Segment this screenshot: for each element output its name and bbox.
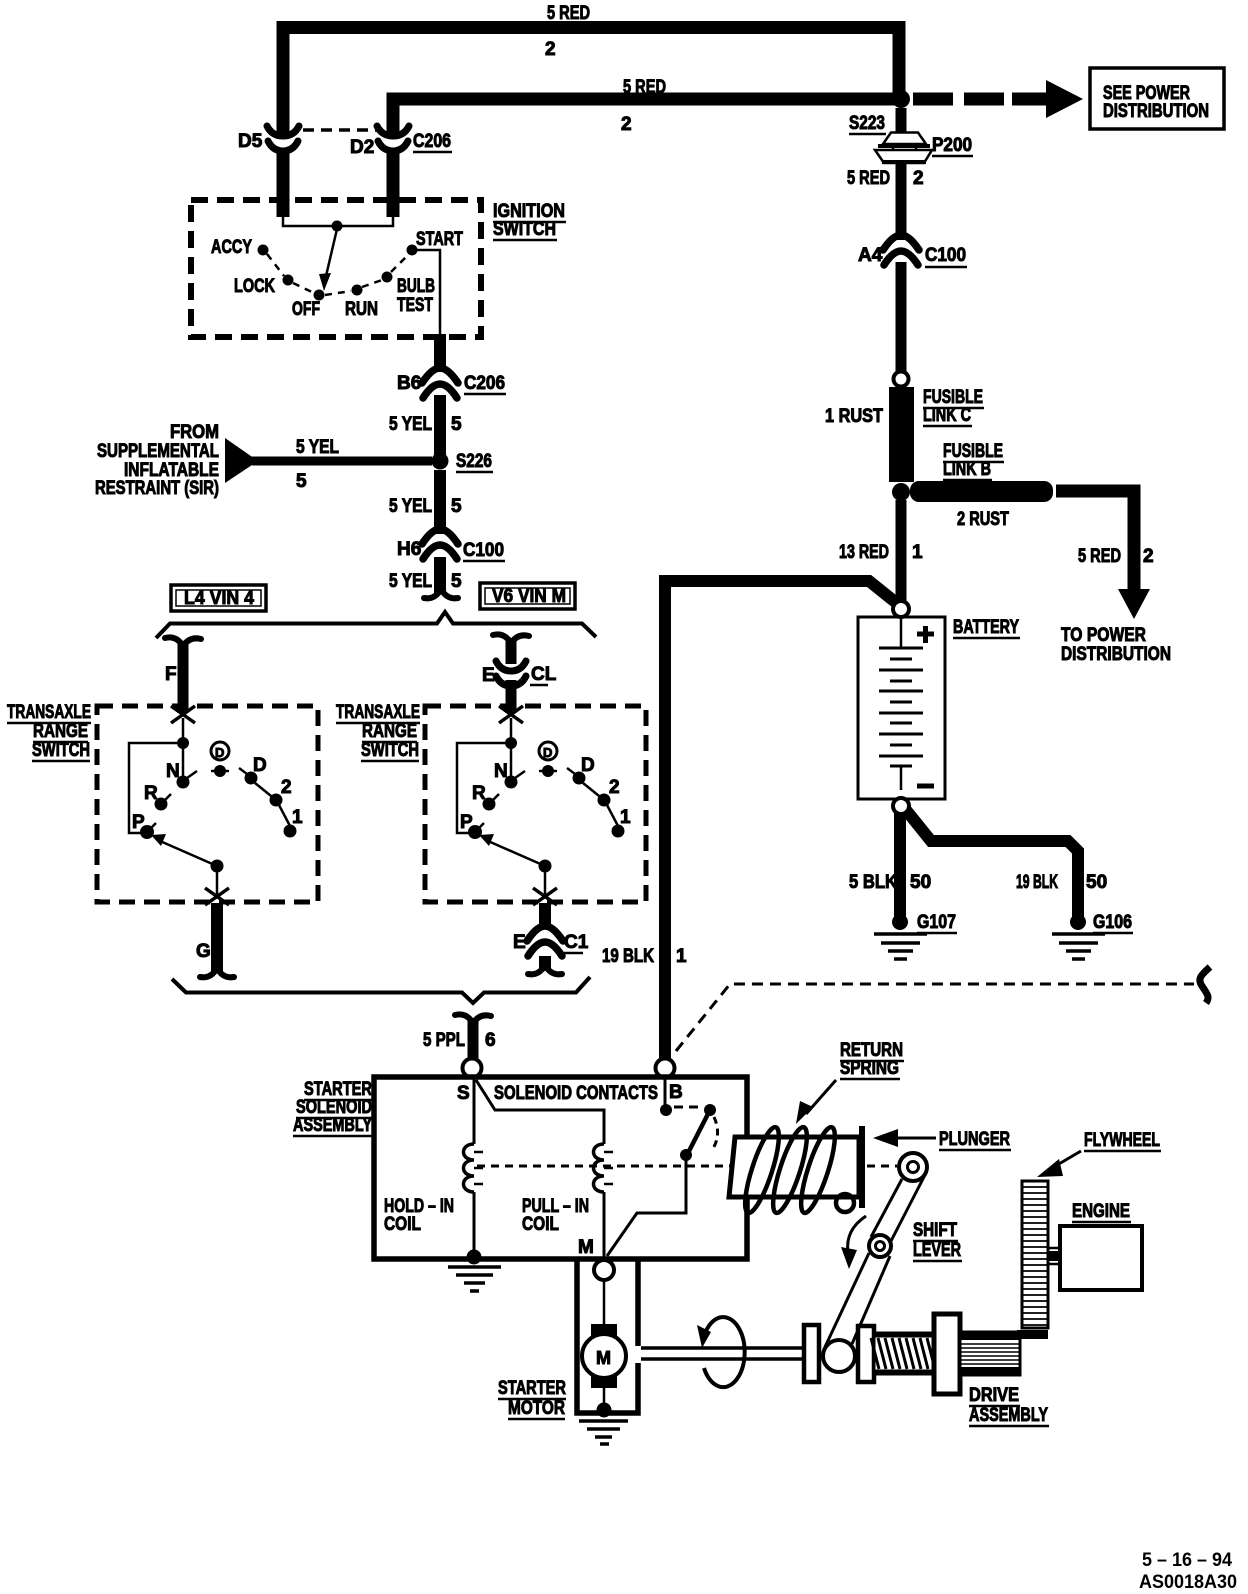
svg-text:D: D: [253, 755, 267, 776]
wire pivot down: [544, 866, 547, 897]
wire S226 to H6: [434, 470, 446, 534]
SECTION: ignition: [191, 200, 566, 372]
label TRANSAXLE RANGE SWITCH (left): [7, 702, 91, 761]
dashed line end curl: [1200, 967, 1210, 1003]
wire 2 to 1: [607, 805, 618, 826]
dashed motion arc: [712, 1117, 718, 1150]
node: [177, 737, 189, 749]
svg-text:COIL: COIL: [384, 1214, 421, 1235]
svg-text:RUN: RUN: [345, 299, 378, 320]
svg-text:C1: C1: [564, 932, 589, 953]
svg-text:AS0018A30: AS0018A30: [1139, 1572, 1237, 1593]
wire 5 BLK to G107: [894, 813, 906, 922]
connector B6 C206: [422, 368, 458, 383]
svg-text:START: START: [416, 229, 463, 250]
upper brace: [156, 612, 596, 638]
svg-text:C206: C206: [464, 373, 505, 394]
motor ground node: [597, 1403, 612, 1418]
svg-text:RESTRAINT (SIR): RESTRAINT (SIR): [95, 478, 219, 499]
contact D: [245, 772, 258, 785]
wire P200 to C100: [896, 161, 907, 240]
connector X crossing left bottom: [205, 888, 229, 905]
SECTION: right column: [665, 108, 1171, 959]
svg-text:FROM: FROM: [170, 422, 219, 443]
svg-text:5 YEL: 5 YEL: [389, 571, 432, 592]
svg-text:5 RED: 5 RED: [1078, 546, 1121, 567]
solenoid assembly box: [374, 1077, 747, 1259]
contact 1: [284, 825, 297, 838]
svg-text:B6: B6: [397, 373, 421, 394]
plunger body: [729, 1137, 859, 1197]
shift lever mid ring: [869, 1235, 891, 1257]
rotation arrow: [704, 1317, 745, 1387]
connector H6 C100: [422, 529, 458, 544]
connector X crossing left top: [171, 706, 195, 723]
svg-text:5 RED: 5 RED: [847, 168, 890, 189]
wire node to N: [510, 743, 513, 778]
wiper arm to P: [160, 841, 217, 866]
wire arm to M: [607, 1155, 686, 1256]
svg-text:19 BLK: 19 BLK: [1016, 872, 1058, 893]
ignition switch dashed box: [191, 200, 481, 337]
svg-text:6: 6: [485, 1030, 496, 1051]
svg-text:LEVER: LEVER: [913, 1240, 961, 1261]
box L4 VIN 4: [171, 585, 266, 611]
svg-text:D: D: [581, 755, 595, 776]
motor brush top: [591, 1324, 617, 1336]
svg-text:G107: G107: [917, 912, 956, 933]
contact D: [573, 772, 586, 785]
contact ACCY: [258, 245, 269, 256]
wire pull-in coil to M: [603, 1192, 606, 1259]
svg-text:TRANSAXLE: TRANSAXLE: [336, 702, 420, 723]
battery box: [858, 617, 945, 799]
engine box: [1060, 1226, 1142, 1290]
connector fork E bottom: [528, 965, 562, 974]
svg-text:2: 2: [609, 777, 620, 798]
wire 13 RED: [896, 500, 907, 601]
svg-text:FLYWHEEL: FLYWHEEL: [1084, 1130, 1160, 1151]
svg-text:50: 50: [1086, 872, 1107, 893]
battery plus: [917, 626, 934, 643]
ground node hold-in: [467, 1250, 482, 1265]
SECTION: footer: [1139, 1550, 1237, 1593]
node S223: [892, 90, 910, 108]
svg-text:1: 1: [676, 946, 687, 967]
svg-text:5 BLK: 5 BLK: [849, 872, 897, 893]
svg-text:D: D: [215, 745, 224, 760]
wire to down arrow: [1056, 491, 1134, 590]
wire S to hold-in coil: [473, 1078, 476, 1144]
wire START to B6: [417, 250, 440, 334]
label FROM SUPPLEMENTAL INFLATABLE RESTRAINT (SIR): [95, 422, 219, 499]
wire S to pull-in coil: [476, 1080, 604, 1144]
SECTION: top power feed: [238, 3, 1224, 217]
drive splined shaft: [960, 1332, 1020, 1375]
shift lever body lower: [825, 1253, 869, 1347]
contact fixed B: [660, 1104, 672, 1116]
connector fork E top (V6): [493, 634, 529, 643]
motor armature M: [582, 1334, 626, 1378]
svg-text:SOLENOID CONTACTS: SOLENOID CONTACTS: [494, 1083, 658, 1104]
wire D to 2: [583, 783, 604, 800]
svg-text:TRANSAXLE: TRANSAXLE: [7, 702, 91, 723]
svg-text:2: 2: [913, 168, 924, 189]
wire entry to node: [510, 718, 513, 743]
shift lever top ring: [899, 1153, 927, 1181]
starter motor housing: [577, 1259, 638, 1413]
svg-text:S226: S226: [456, 451, 492, 472]
contact arm pivot: [680, 1149, 692, 1161]
contact 2: [598, 794, 611, 807]
terminal B: [656, 1059, 675, 1078]
lever ball joint: [823, 1340, 855, 1372]
motor shaft: [641, 1346, 804, 1350]
svg-text:DISTRIBUTION: DISTRIBUTION: [1103, 101, 1209, 122]
svg-text:5 RED: 5 RED: [623, 77, 666, 98]
wire dashed link D5-D2: [303, 128, 378, 132]
ground symbol below box: [448, 1267, 501, 1291]
contact P: [468, 825, 482, 839]
svg-text:R: R: [144, 783, 158, 804]
wire B6 to S226: [434, 395, 446, 455]
contact R: [155, 798, 168, 811]
svg-text:5 PPL: 5 PPL: [423, 1030, 465, 1051]
wire C100 to fusible link C: [896, 262, 907, 372]
svg-text:2: 2: [621, 114, 632, 135]
svg-text:ACCY: ACCY: [211, 237, 252, 258]
svg-text:E: E: [482, 665, 495, 686]
contact D circled: [539, 742, 557, 760]
arrow to flywheel: [1052, 1151, 1081, 1168]
svg-text:50: 50: [910, 872, 931, 893]
svg-text:SPRING: SPRING: [840, 1058, 899, 1079]
svg-text:E: E: [513, 932, 526, 953]
wire dashed to power distribution: [913, 93, 1004, 106]
right switch internals: [457, 718, 631, 905]
svg-text:C100: C100: [925, 245, 966, 266]
svg-text:V6 VIN M: V6 VIN M: [492, 586, 566, 607]
svg-text:SUPPLEMENTAL: SUPPLEMENTAL: [97, 441, 219, 462]
wire below H6: [434, 557, 446, 593]
svg-text:LINK C: LINK C: [923, 405, 971, 426]
svg-text:2: 2: [281, 777, 292, 798]
svg-text:1: 1: [620, 807, 631, 828]
svg-text:R: R: [472, 783, 486, 804]
connector fork 5 PPL top: [455, 1014, 491, 1023]
wire SIR to S226: [252, 457, 432, 466]
wire S223 to P200: [896, 108, 907, 134]
wiper arm to P: [488, 841, 545, 866]
return spring coil 3: [795, 1124, 842, 1216]
wiper arrow to OFF: [326, 229, 337, 276]
motor ground symbol: [579, 1421, 628, 1444]
svg-text:2: 2: [1143, 546, 1154, 567]
arrow to return spring: [806, 1080, 836, 1114]
svg-text:TEST: TEST: [397, 295, 433, 316]
connector fork G bottom: [200, 968, 234, 977]
svg-text:BULB: BULB: [397, 276, 435, 297]
wire G below left box: [211, 903, 223, 972]
connector D2 half: [377, 126, 409, 136]
svg-text:ENGINE: ENGINE: [1072, 1201, 1130, 1222]
wire 19 BLK to G106: [906, 810, 1078, 922]
svg-text:STARTER: STARTER: [498, 1378, 566, 1399]
SECTION: braces and vin boxes: [156, 583, 596, 1003]
svg-text:D2: D2: [350, 137, 374, 158]
wire F branch: [178, 642, 189, 713]
contact D-node: [214, 765, 226, 777]
svg-text:2: 2: [545, 39, 556, 60]
node S226: [432, 453, 449, 470]
contact dashed closed position: [674, 1106, 702, 1109]
wire loop to P: [457, 743, 511, 833]
wire motor to ground: [603, 1388, 606, 1410]
wire 2 to 1: [279, 805, 290, 826]
wire end fork: [424, 589, 458, 598]
wire 5 RED second run: [393, 99, 899, 135]
svg-text:DISTRIBUTION: DISTRIBUTION: [1061, 644, 1171, 665]
dashed motion line from B: [676, 984, 1194, 1051]
svg-text:A4: A4: [858, 245, 883, 266]
drive flange left: [804, 1325, 819, 1382]
connector X crossing right top: [499, 706, 523, 723]
wire M to motor: [603, 1280, 606, 1325]
wire 19 BLK top run: [665, 575, 899, 605]
terminal S: [463, 1059, 482, 1078]
svg-text:LINK B: LINK B: [943, 459, 991, 480]
svg-text:13 RED: 13 RED: [839, 542, 889, 563]
dashed arc of contacts: [267, 254, 408, 295]
contact N: [177, 776, 190, 789]
svg-text:D: D: [543, 745, 552, 760]
ground G107: [892, 914, 908, 930]
svg-text:DRIVE: DRIVE: [969, 1385, 1019, 1406]
svg-text:5: 5: [451, 414, 462, 435]
connector D5 half: [267, 126, 299, 136]
wire D to 2: [255, 783, 276, 800]
shift lever body upper: [871, 1179, 902, 1237]
svg-text:D5: D5: [238, 131, 263, 152]
svg-text:5: 5: [451, 571, 462, 592]
svg-text:BATTERY: BATTERY: [953, 617, 1019, 638]
fusible link C: [889, 387, 914, 482]
dashed plunger axis: [477, 1165, 731, 1168]
label STARTER SOLENOID ASSEMBLY: [293, 1079, 372, 1136]
wire entry to node: [182, 718, 185, 743]
contact D-node: [542, 765, 554, 777]
contact RUN: [352, 285, 363, 296]
svg-text:CL: CL: [531, 664, 557, 685]
return spring coil 1: [739, 1124, 786, 1216]
svg-text:SHIFT: SHIFT: [913, 1220, 957, 1241]
wire 5 PPL: [468, 1020, 479, 1058]
contact R: [483, 798, 496, 811]
svg-text:5 YEL: 5 YEL: [296, 437, 339, 458]
svg-text:C100: C100: [463, 540, 504, 561]
return spring end loop: [836, 1194, 854, 1212]
svg-text:P: P: [460, 812, 473, 833]
movable arm: [687, 1110, 710, 1155]
svg-text:ASSEMBLY: ASSEMBLY: [969, 1405, 1048, 1426]
wire B to fixed contact: [664, 1078, 667, 1106]
svg-text:PLUNGER: PLUNGER: [939, 1129, 1010, 1150]
svg-text:B: B: [669, 1082, 683, 1103]
flywheel hub foot: [1017, 1330, 1048, 1339]
terminal M: [594, 1260, 614, 1280]
svg-text:M: M: [578, 1237, 594, 1258]
svg-text:5 RED: 5 RED: [547, 3, 590, 24]
pull-in coil: [594, 1144, 605, 1192]
SIR feed arrow: [225, 438, 258, 483]
svg-text:N: N: [494, 761, 508, 782]
wire 19 BLK vertical: [659, 581, 671, 1058]
connector fork F top: [165, 637, 201, 646]
wire D2 stub into ignition box: [387, 150, 400, 217]
node feed: [332, 221, 343, 232]
wire E below right box: [539, 903, 551, 926]
SECTION: mechanical: [498, 1040, 1161, 1444]
wire E branch upper: [506, 639, 517, 664]
wire 5 RED top run: [283, 28, 899, 136]
connector X crossing right bottom: [533, 888, 557, 905]
contact 2: [270, 794, 283, 807]
svg-text:P200: P200: [932, 135, 972, 156]
svg-text:OFF: OFF: [292, 299, 320, 320]
drive flange 2: [858, 1326, 874, 1382]
svg-text:5 – 16 – 94: 5 – 16 – 94: [1142, 1550, 1232, 1571]
svg-text:5: 5: [296, 471, 307, 492]
label STARTER MOTOR: [498, 1378, 566, 1419]
svg-text:P: P: [132, 812, 145, 833]
left transaxle dashed box: [97, 706, 318, 902]
svg-text:F: F: [165, 664, 177, 685]
svg-text:5 YEL: 5 YEL: [389, 414, 432, 435]
contact 1: [612, 825, 625, 838]
svg-text:N: N: [166, 761, 180, 782]
fusible link B bar: [910, 481, 1053, 502]
svg-text:H6: H6: [397, 539, 421, 560]
contact P: [140, 825, 154, 839]
contact BULB TEST: [382, 272, 393, 283]
contact D circled: [211, 742, 229, 760]
connector E C1: [527, 926, 563, 941]
svg-text:19 BLK: 19 BLK: [602, 946, 654, 967]
engine crank stub: [1048, 1251, 1060, 1261]
lever motion arrow: [848, 1216, 866, 1252]
svg-text:G: G: [196, 941, 211, 962]
svg-text:L4 VIN 4: L4 VIN 4: [184, 588, 254, 609]
svg-text:1: 1: [912, 542, 923, 563]
svg-text:COIL: COIL: [522, 1214, 559, 1235]
svg-text:TO POWER: TO POWER: [1061, 625, 1146, 646]
arrow to plunger: [898, 1137, 936, 1140]
wire pivot down: [216, 866, 219, 897]
lower brace: [172, 977, 590, 1003]
battery plates: [879, 619, 923, 790]
wire E branch lower: [506, 680, 517, 713]
contact movable top: [704, 1104, 716, 1116]
wiper pivot: [539, 860, 552, 873]
splice P200: [875, 133, 932, 164]
SECTION: transaxle boxes: [7, 634, 646, 977]
motor brush bottom: [591, 1376, 617, 1388]
SECTION: solenoid: [293, 581, 1210, 1291]
svg-text:5 YEL: 5 YEL: [389, 496, 432, 517]
contact OFF: [314, 290, 325, 301]
svg-text:S: S: [457, 1083, 470, 1104]
ground G106: [1070, 914, 1086, 930]
node below fusible link C: [892, 483, 910, 501]
node: [505, 737, 517, 749]
wire feed bus: [283, 216, 393, 226]
flywheel ring gear: [1022, 1181, 1048, 1328]
svg-text:SWITCH: SWITCH: [493, 219, 556, 240]
battery minus: [917, 784, 934, 789]
svg-text:G106: G106: [1093, 912, 1132, 933]
svg-text:C206: C206: [413, 131, 451, 152]
drive pinion flange: [934, 1314, 960, 1394]
wire D5 stub into ignition box: [277, 150, 290, 217]
battery top terminal: [893, 601, 909, 617]
box SEE POWER DISTRIBUTION: [1090, 68, 1224, 129]
left switch internals: [129, 718, 303, 905]
SECTION: yel chain: [95, 368, 506, 598]
svg-text:LOCK: LOCK: [234, 276, 275, 297]
svg-text:1 RUST: 1 RUST: [825, 406, 883, 427]
return spring coil 2: [767, 1124, 814, 1216]
plunger stop plate: [859, 1126, 865, 1208]
wiper pivot: [211, 860, 224, 873]
terminal ring: [894, 372, 909, 387]
wire below C1: [539, 956, 551, 971]
drive spring hatched section: [874, 1333, 936, 1374]
svg-text:1: 1: [292, 807, 303, 828]
box V6 VIN M: [480, 583, 575, 609]
svg-text:MOTOR: MOTOR: [508, 1398, 565, 1419]
right transaxle dashed box: [425, 706, 646, 902]
wire node to N: [182, 743, 185, 778]
contact START: [407, 245, 418, 256]
contact N: [505, 776, 518, 789]
battery bottom terminal: [893, 798, 909, 814]
connector A4 C100: [883, 235, 919, 250]
contact LOCK: [283, 275, 294, 286]
svg-text:S223: S223: [849, 113, 885, 134]
label TRANSAXLE RANGE SWITCH (right): [336, 702, 420, 761]
svg-text:2 RUST: 2 RUST: [957, 509, 1009, 530]
svg-text:M: M: [596, 1348, 611, 1368]
wire hold-in coil to ground: [473, 1192, 476, 1256]
hold-in coil: [464, 1144, 475, 1192]
wire loop to P: [129, 743, 183, 833]
connector CL: [496, 661, 526, 671]
svg-text:5: 5: [451, 496, 462, 517]
